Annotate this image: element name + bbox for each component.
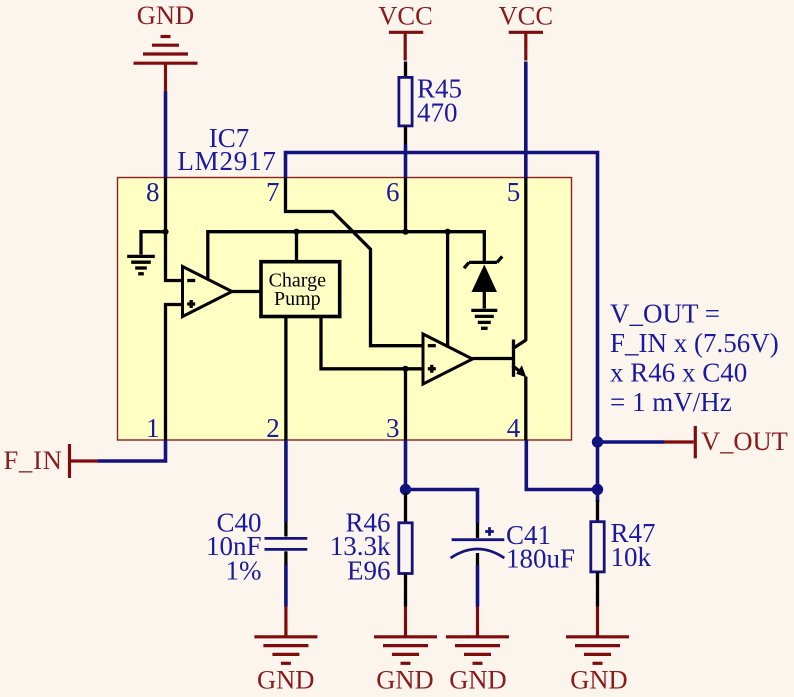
internal rail wire: [208, 232, 485, 280]
internal junction pin 6: [402, 229, 408, 235]
wire net pin7 to V_OUT column: [286, 153, 598, 490]
pin 3 internal wire: [404, 369, 407, 440]
svg-text:= 1 mV/Hz: = 1 mV/Hz: [610, 387, 732, 417]
op-amp U1b: [423, 334, 473, 384]
pin 6 internal wire: [404, 178, 407, 232]
svg-text:x R46 x C40: x R46 x C40: [610, 358, 747, 388]
label IC7 LM2917: [177, 123, 276, 176]
ground symbol GND (C40): [254, 607, 317, 695]
wire pin 3 node: [406, 440, 478, 523]
wire R45 to pin 6: [404, 145, 408, 178]
resistor R45: [399, 62, 412, 145]
svg-text:6: 6: [386, 177, 400, 207]
svg-text:5: 5: [507, 177, 521, 207]
svg-text:F_IN x (7.56V): F_IN x (7.56V): [610, 328, 779, 358]
supply symbol GND top: [134, 0, 198, 91]
pin 5 internal wire (collector): [524, 178, 527, 341]
ground symbol GND (R47): [566, 607, 629, 695]
pin 8 internal wire: [164, 178, 167, 232]
svg-text:GND: GND: [257, 665, 314, 695]
op-amp U1a output wire: [232, 290, 260, 293]
label R47 10k: [611, 518, 656, 572]
note V_OUT equation: [610, 299, 779, 418]
label R46 13.3k E96: [330, 507, 391, 585]
junction pin 3 node: [400, 484, 411, 495]
svg-text:GND: GND: [376, 665, 433, 695]
wire rail to op-amp U1b power: [446, 232, 449, 347]
svg-text:2: 2: [266, 413, 280, 443]
svg-text:V_OUT =: V_OUT =: [610, 299, 720, 329]
wire charge pump to op-amp U1b plus: [321, 317, 423, 369]
svg-text:8: 8: [146, 177, 160, 207]
zener diode: [464, 256, 502, 308]
wire VCC to pin 5: [524, 62, 528, 178]
label C40 10nF 1%: [206, 507, 262, 585]
svg-text:7: 7: [266, 177, 280, 207]
wire pin 2 to C40: [284, 440, 288, 522]
supply symbol VCC left: [378, 0, 433, 60]
resistor R47: [591, 490, 604, 607]
svg-text:Pump: Pump: [274, 288, 321, 310]
label R45 470: [417, 74, 462, 128]
svg-text:E96: E96: [347, 556, 391, 586]
capacitor C40: [265, 522, 308, 565]
svg-text:VCC: VCC: [499, 0, 554, 30]
svg-text:GND: GND: [570, 665, 627, 695]
IC7 body: [118, 178, 572, 441]
svg-text:4: 4: [507, 413, 521, 443]
op-amp U1b output wire: [473, 357, 513, 360]
internal ground symbol (pin 8): [127, 232, 165, 274]
wire V_OUT stub: [598, 440, 665, 444]
wire GND to pin 8: [164, 92, 168, 178]
svg-text:1%: 1%: [226, 556, 262, 586]
svg-text:470: 470: [417, 97, 458, 127]
port F_IN: [4, 444, 99, 478]
junction V_OUT: [592, 436, 603, 447]
resistor R46: [399, 493, 412, 607]
svg-text:GND: GND: [137, 0, 194, 30]
svg-text:F_IN: F_IN: [4, 445, 63, 475]
internal junction pin 3: [402, 366, 408, 372]
internal junction pin 8: [162, 229, 168, 235]
op-amp U1a: [183, 267, 233, 317]
svg-text:180uF: 180uF: [506, 544, 575, 574]
pin 1 internal wire to op-amp plus: [166, 305, 183, 441]
charge pump block: [261, 262, 340, 317]
svg-text:V_OUT: V_OUT: [701, 426, 788, 456]
svg-text:GND: GND: [449, 665, 506, 695]
wire C41 to GND: [476, 565, 480, 607]
pin 4 internal wire (emitter): [524, 377, 527, 441]
svg-text:LM2917: LM2917: [177, 146, 276, 176]
svg-text:1: 1: [146, 413, 160, 443]
wire F_IN to pin 1: [98, 440, 166, 461]
svg-text:3: 3: [386, 413, 400, 443]
pin 7 internal wire to op-amp U1b minus: [286, 178, 424, 346]
capacitor C41: [451, 523, 505, 565]
pin 2 internal wire: [284, 317, 287, 441]
internal junction op-amp U1b power: [445, 229, 451, 235]
internal wire pin8 to op-amp minus: [166, 232, 183, 281]
port V_OUT: [664, 426, 788, 458]
label C41 180uF: [506, 520, 575, 574]
wire rail to charge pump: [295, 232, 298, 262]
svg-text:VCC: VCC: [378, 0, 433, 30]
svg-text:10k: 10k: [611, 542, 652, 572]
junction R47 top: [592, 484, 603, 495]
wire C40 to GND: [284, 565, 288, 607]
internal ground symbol (zener): [471, 310, 497, 328]
wire pin 4 to junction: [526, 440, 597, 490]
supply symbol VCC right: [499, 0, 554, 60]
internal junction charge pump top: [293, 229, 299, 235]
ground symbol GND (R46): [374, 607, 437, 695]
ground symbol GND (C41): [446, 607, 509, 695]
transistor Q1: [513, 340, 527, 378]
